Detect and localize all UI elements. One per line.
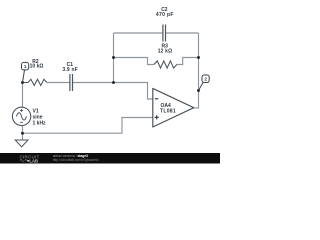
node dot: output/terminal2 junction	[197, 89, 200, 92]
node dot: R3 left tap	[112, 56, 115, 59]
node dot: R2/V1/terminal1 junction	[21, 81, 24, 84]
wire: main inverting-node wire (R2 lead to C1)	[47, 82, 70, 84]
resistor R3	[154, 61, 177, 68]
wire: C1 right plate to feedback junction to op-amp minus input	[73, 83, 153, 100]
svg-text:12 kΩ: 12 kΩ	[158, 48, 173, 54]
ground	[15, 140, 28, 147]
resistor R2	[23, 79, 47, 85]
terminal flag 1 (node 1)	[22, 62, 29, 82]
wire: C2 top loop right segment	[166, 32, 199, 34]
node dot: ground junction	[21, 132, 24, 135]
svg-text:470 pF: 470 pF	[156, 12, 174, 18]
svg-text:10 kΩ: 10 kΩ	[30, 64, 44, 70]
wire: ground net to op-amp plus input	[23, 118, 154, 134]
svg-text:TL081: TL081	[160, 108, 176, 114]
wire: V1 bottom to ground node	[22, 126, 24, 141]
svg-text:V1: V1	[33, 109, 39, 115]
op-amp OA4	[153, 88, 194, 127]
svg-text:sine: sine	[33, 115, 43, 121]
svg-text:2: 2	[204, 77, 207, 82]
svg-text:1 kHz: 1 kHz	[33, 121, 47, 127]
wire: feedback left vertical	[113, 33, 115, 83]
wire: C2 top loop left segment	[114, 32, 163, 34]
svg-text:LAB: LAB	[29, 158, 38, 163]
wire: left riser from R2 node down to V1 top	[22, 83, 24, 108]
CircuitLab logo	[20, 154, 40, 163]
capacitor C2	[163, 25, 166, 42]
svg-text:http://circuitlab.com/c7gfaawr: http://circuitlab.com/c7gfaawr6x	[53, 158, 100, 162]
wire: feedback right vertical (C2 corner down to op-amp output)	[194, 33, 199, 108]
svg-text:3.9 nF: 3.9 nF	[62, 67, 78, 73]
node dot: C1/feedback junction	[112, 81, 115, 84]
wire: R3 loop right branch	[177, 58, 199, 65]
terminal flag 2 (node 2)	[199, 75, 210, 91]
capacitor C1	[70, 74, 73, 91]
svg-text:1: 1	[24, 64, 27, 69]
voltage source V1	[12, 107, 30, 125]
footer bar	[0, 153, 220, 164]
wire: R3 loop left branch	[114, 58, 155, 65]
node dot: R3 right tap	[197, 56, 200, 59]
